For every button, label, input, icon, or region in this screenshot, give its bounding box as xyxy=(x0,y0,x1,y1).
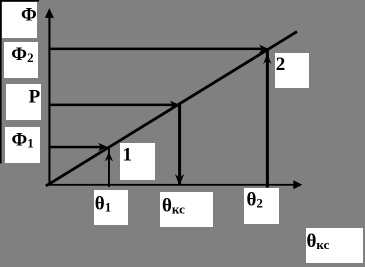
svg-text:Φ: Φ xyxy=(21,5,37,26)
svg-text:2: 2 xyxy=(276,54,286,75)
svg-text:P: P xyxy=(29,86,41,107)
svg-text:1: 1 xyxy=(123,145,133,166)
